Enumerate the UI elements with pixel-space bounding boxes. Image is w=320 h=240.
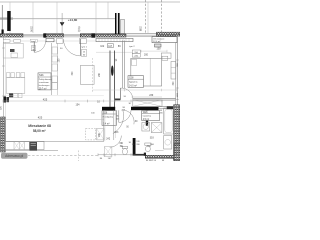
bed — [131, 58, 162, 86]
right wall hatch lower — [174, 105, 180, 161]
terrace top edge line — [0, 1, 180, 3]
hall label box — [102, 111, 117, 126]
bath door A leaf — [118, 110, 120, 122]
hall door arc B — [113, 110, 124, 133]
window fraction label over W1 — [30, 28, 33, 33]
bath door jamb vertical — [146, 110, 148, 126]
bedroom south wall right part — [133, 98, 176, 100]
grey smudge left — [0, 17, 13, 20]
bath small line — [155, 150, 164, 152]
svg-text:z aneksem: z aneksem — [39, 82, 49, 84]
svg-text:102: 102 — [100, 45, 105, 48]
window W2 — [64, 34, 81, 37]
exterior top wall segment B — [44, 34, 64, 37]
wardrobe strip box below wall C — [96, 38, 133, 41]
terrace line above chimney — [107, 2, 109, 19]
dim line main horizontal 2 — [3, 118, 104, 120]
kitchen bottom cabinets — [5, 142, 44, 150]
tym label 1 — [30, 39, 37, 42]
black corner post left — [2, 30, 4, 37]
balcony door 1 arc — [34, 41, 45, 52]
left wall black blobs — [4, 97, 6, 103]
bedroom window fraction boxes — [132, 50, 140, 54]
kitchen/hall boundary line — [103, 110, 105, 141]
balcony door 2 leaf — [79, 39, 81, 56]
dim row under corridor: line — [96, 51, 133, 53]
tym1 fraction boxes — [31, 46, 36, 51]
junction dark box — [144, 153, 146, 156]
wall sill line under A-C — [3, 40, 115, 42]
bathtub — [164, 108, 174, 134]
left wall hatch lower — [1, 117, 6, 152]
kitchen counter vertical strip — [51, 43, 53, 95]
bedroom dim line top — [141, 50, 167, 52]
washing machine below tub — [164, 136, 172, 149]
svg-text:425: 425 — [38, 116, 43, 120]
svg-text:84 REP 94: 84 REP 94 — [146, 160, 157, 161]
bathroom label box — [142, 111, 160, 121]
chair bottom 3 — [18, 93, 22, 97]
watermark box — [1, 153, 28, 159]
bedroom door arc — [120, 88, 133, 100]
top-left room rug rect — [3, 43, 23, 58]
washer X box — [151, 123, 162, 133]
dim line main horizontal 1 — [3, 95, 104, 97]
level leader line — [61, 13, 63, 34]
dim line bedroom 239 — [131, 96, 162, 98]
svg-text:303: 303 — [114, 131, 119, 134]
thick wall hall/bath — [131, 107, 159, 110]
svg-text:W2b: W2b — [143, 111, 149, 114]
small label box under B — [56, 39, 63, 43]
bottom dashed vertical — [78, 150, 80, 161]
dark post at B start — [44, 33, 47, 37]
dashed boundary line — [91, 58, 93, 93]
bedroom bottom dim line — [92, 89, 177, 91]
svg-text:12,0 m²: 12,0 m² — [153, 40, 161, 43]
svg-text:117: 117 — [108, 45, 112, 48]
svg-text:Sypialnia: Sypialnia — [129, 81, 138, 83]
balcony door 1 leaf — [33, 41, 35, 52]
mid wall line 2 — [114, 51, 116, 111]
svg-text:Pokój dzienny: Pokój dzienny — [39, 79, 53, 81]
pillow 1 — [132, 59, 137, 65]
label box mid dark — [46, 38, 54, 42]
svg-text:100: 100 — [157, 47, 162, 50]
dark appliance — [30, 142, 38, 151]
bedroom south wall stub left — [115, 99, 121, 101]
dining table — [7, 78, 25, 94]
svg-text:29,7 m²: 29,7 m² — [39, 87, 47, 90]
bottom dashed cut line — [28, 154, 98, 156]
right outer wall lines — [176, 32, 178, 161]
svg-text:4,5 m²: 4,5 m² — [143, 118, 150, 121]
thin wall right of bath wall — [159, 106, 167, 108]
svg-text:200: 200 — [144, 54, 149, 57]
svg-text:154: 154 — [76, 103, 81, 106]
counter appliance boxes — [52, 47, 57, 54]
wardrobe X band in hall — [133, 100, 162, 107]
svg-text:tym 2: tym 2 — [129, 45, 135, 48]
svg-text:239: 239 — [149, 94, 154, 97]
dashed terrace boundary 1 — [145, 0, 147, 33]
chair box near rug — [11, 53, 18, 57]
cabinet solid near fridge — [97, 128, 105, 140]
recessed wall (lower, right of chimney) — [126, 34, 157, 37]
chimney side box — [121, 20, 125, 34]
svg-text:Adresowo.pl: Adresowo.pl — [5, 154, 23, 158]
washbasin — [142, 122, 150, 131]
chair top 2 — [11, 73, 15, 78]
wc bottom wall thin dark — [133, 154, 146, 156]
svg-text:S28: S28 — [129, 77, 134, 80]
chair top 4 — [21, 73, 25, 78]
svg-text:S2b: S2b — [39, 73, 44, 77]
bathroom bottom wall hatched — [145, 155, 180, 158]
svg-text:Mieszkanie 68: Mieszkanie 68 — [28, 124, 51, 128]
top-right room label box — [152, 37, 177, 43]
svg-text:Łazienka: Łazienka — [143, 116, 152, 118]
bathroom toilet — [145, 143, 151, 145]
rug dark blob — [10, 49, 15, 52]
sofa rect — [80, 65, 94, 84]
toilet — [122, 146, 127, 148]
dark post mid C — [91, 33, 95, 37]
level marker symbol — [60, 22, 65, 26]
fridge dashed — [86, 128, 96, 140]
left wall line — [2, 34, 4, 153]
hall door arc C — [123, 110, 134, 124]
bottom dim line right — [98, 154, 133, 156]
tym2 fraction boxes — [82, 49, 87, 56]
chair bottom 2 — [14, 93, 18, 97]
exterior top wall segment D — [157, 32, 181, 36]
bedroom door leaf — [119, 88, 121, 100]
small cabinet boxes bottom hall — [104, 147, 112, 157]
wc door arc — [110, 136, 122, 148]
exterior top wall segment A — [0, 34, 23, 37]
small dark box below top-right label — [155, 44, 162, 47]
bedroom west wall — [121, 41, 123, 89]
wc divider wall black — [133, 138, 136, 155]
bath door arc A — [119, 110, 131, 122]
svg-text:tym 1: tym 1 — [82, 45, 88, 48]
svg-text:58,00 m²: 58,00 m² — [33, 129, 46, 133]
dark chair bottom — [9, 93, 13, 97]
chimney black bars — [115, 13, 117, 34]
svg-text:425: 425 — [43, 97, 48, 101]
bottom wall line left — [0, 149, 58, 151]
svg-text:+14,80: +14,80 — [68, 18, 78, 22]
svg-text:Przedpokój: Przedpokój — [103, 116, 114, 118]
small label box under W2 end — [79, 39, 86, 43]
thick wall stub right — [167, 106, 173, 109]
chair top 3 — [16, 73, 20, 78]
label box far left — [3, 39, 10, 42]
label box left 2 — [14, 39, 21, 42]
svg-text:14,0 m²: 14,0 m² — [129, 84, 137, 87]
black pier top-left — [7, 11, 11, 31]
exterior top wall segment C — [80, 34, 126, 37]
living room label box — [38, 73, 51, 90]
wardrobe right — [171, 62, 176, 80]
pillow 2 — [132, 78, 137, 85]
right edge dim ticks — [176, 36, 179, 145]
window fraction label over W2 — [78, 28, 81, 33]
balcony door 2 arc — [63, 39, 80, 56]
shelf top right — [161, 53, 171, 58]
window W1 — [23, 34, 44, 37]
thick wall corner (hall west) — [102, 107, 115, 111]
bedroom label box — [128, 76, 144, 88]
terrace mid grey line — [0, 18, 115, 20]
terrace divider ticks — [10, 2, 148, 33]
small label box near corridor — [108, 44, 114, 48]
left edge dim ticks — [2, 48, 5, 119]
chair top 1 — [7, 73, 11, 78]
kitchen bottom counter line — [5, 140, 104, 142]
svg-text:kuchennym: kuchennym — [39, 85, 50, 87]
bottom right corner hatch dark — [174, 144, 180, 161]
dashed terrace boundary 2 — [161, 0, 163, 33]
mid wall door panel blob — [111, 66, 114, 76]
left outer grey line above wall — [1, 5, 3, 30]
mid wall line 1 — [109, 51, 111, 111]
nightstand right of bed — [162, 56, 168, 60]
window fraction label over recessed wall — [139, 27, 142, 32]
